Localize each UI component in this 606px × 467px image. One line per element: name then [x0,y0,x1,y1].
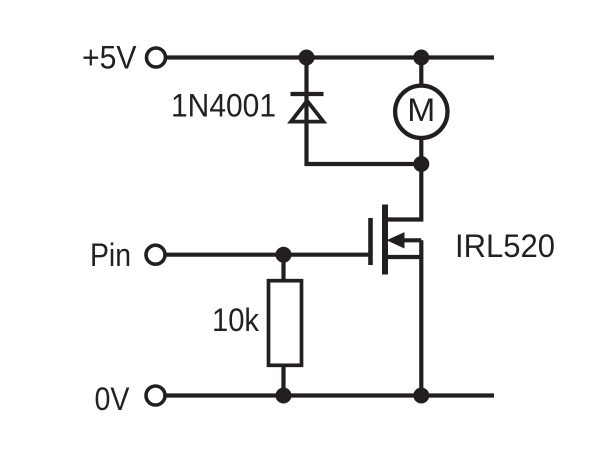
transistor Q1 gate bar [368,218,373,265]
wire motor-top [419,58,423,87]
wire diode branch [307,58,422,165]
junction motor-bottom [413,156,429,172]
wire source down [419,240,423,395]
wire gate lead [166,253,369,257]
svg-text:0V: 0V [95,381,131,417]
terminal 0V [146,386,165,405]
svg-text:+5V: +5V [82,40,137,76]
svg-text:Pin: Pin [90,237,131,273]
wire resistor top stub [281,255,285,281]
svg-text:1N4001: 1N4001 [171,87,276,123]
wire body stub [403,238,421,242]
junction diode-top [299,50,315,66]
junction gate-resistor [276,247,292,263]
junction motor-top [413,50,429,66]
diode D1 cathode bar [291,92,324,96]
svg-text:IRL520: IRL520 [455,228,555,264]
wire source stub [385,255,421,259]
terminal Pin [146,245,165,264]
diode D1 triangle [291,101,323,122]
wire +5V rail [167,55,494,59]
wire 0V rail [166,393,494,397]
svg-text:M: M [407,92,435,128]
wire resistor bottom stub [281,365,285,396]
wire drain [386,164,421,220]
svg-text:10k: 10k [212,302,260,338]
wire motor-bottom [419,138,423,165]
junction source-0V [413,388,429,404]
resistor R1 10k [269,281,302,366]
transistor Q1 channel bar [382,205,388,275]
motor M [395,86,447,138]
transistor Q1 body arrow [387,232,405,248]
terminal +5V [147,48,166,67]
junction resistor-0V [276,388,292,404]
